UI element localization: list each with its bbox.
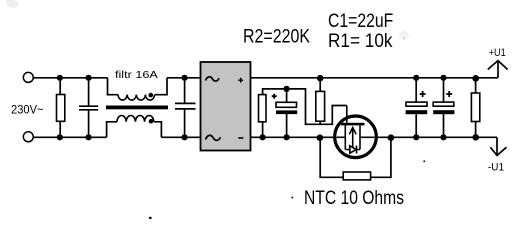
node dot C1 top [283, 86, 289, 92]
wire bottom rail right (after NTC circle) [377, 136, 497, 138]
svg-text:+U1: +U1 [489, 47, 506, 59]
resistor R1 [259, 95, 267, 122]
NTC inner right vertical [359, 125, 361, 149]
capacitor C1 plus sign [272, 94, 277, 99]
NTC bottom link [345, 149, 360, 151]
capacitor C3 top plate [433, 102, 454, 106]
bridge + [238, 78, 243, 83]
polarity dot L1 top [149, 93, 154, 98]
capacitor C2 positive lead [415, 78, 417, 102]
resistor R4 [475, 78, 477, 93]
wire bottom rail left [33, 136, 106, 138]
capacitor C3 bottom plate [433, 110, 454, 114]
svg-text:230V~: 230V~ [11, 102, 44, 116]
svg-text:R1= 10k: R1= 10k [328, 31, 393, 52]
capacitor C1 bottom plate [276, 110, 297, 114]
polarity dot L1 bottom [149, 119, 154, 124]
-U1 output arrow [496, 137, 498, 155]
bypass resistor R3 [343, 172, 370, 180]
wire bottom rail right (to NTC circle) [251, 136, 335, 138]
svg-text:R2=220K: R2=220K [243, 27, 310, 48]
NTC diode triangle [350, 146, 356, 153]
capacitor CX2 [184, 78, 186, 103]
capacitor CX1 [88, 78, 90, 106]
svg-text:filtr 16A: filtr 16A [115, 69, 158, 81]
node wire R1-C1-R2-NTC [263, 89, 347, 124]
wire top rail mid [167, 77, 201, 79]
bridge - [238, 137, 243, 139]
wire top rail left [33, 77, 107, 79]
stray smudge top-left [7, 0, 15, 5]
wire bottom rail mid [161, 136, 200, 138]
core bar of L1 [106, 106, 168, 110]
capacitor C2 bottom plate [406, 110, 428, 114]
NTC thermistor circle [335, 116, 377, 158]
terminal bottom-left [23, 132, 33, 142]
bridge ~ bottom [206, 135, 221, 140]
capacitor C3 bottom lead [443, 114, 445, 137]
junction dots bottom rail [57, 134, 63, 140]
capacitor C1 positive lead [286, 89, 288, 102]
capacitor C3 positive lead [443, 78, 445, 102]
NTC inner left vertical [344, 125, 346, 149]
bridge ~ top [206, 77, 220, 81]
faint smudge right of R1 label [399, 31, 409, 39]
NTC mid stub left [337, 136, 346, 138]
NTC top bar [341, 123, 365, 126]
capacitor C2 plus sign [420, 91, 426, 97]
svg-text:-U1: -U1 [488, 161, 504, 173]
bridge rectifier B1 [201, 62, 251, 151]
capacitor C1 top plate [276, 102, 297, 107]
bypass loop wire left [320, 139, 343, 177]
terminal top-left [23, 72, 33, 82]
svg-text:NTC 10 Ohms: NTC 10 Ohms [304, 188, 404, 209]
capacitor C1 bottom lead [286, 114, 288, 137]
wire top rail right [251, 77, 499, 79]
NTC mid stub right [360, 136, 374, 138]
svg-text:C1=22uF: C1=22uF [328, 11, 393, 32]
capacitor C2 top plate [406, 102, 427, 106]
capacitor C2 bottom lead [415, 114, 417, 137]
+U1 output arrow [497, 61, 499, 78]
inductor L1 bottom winding [107, 122, 117, 138]
stray speck right of caps [423, 160, 425, 162]
NTC arrow shaft [352, 129, 354, 147]
NTC gate entry [346, 106, 348, 123]
resistor RX1 vertical left [59, 78, 61, 95]
NTC arrow head [349, 128, 356, 135]
stray speck near NTC label [291, 197, 293, 199]
bypass loop wire right [371, 140, 391, 178]
NTC diode bar [356, 146, 358, 154]
capacitor C3 plus sign [446, 91, 452, 97]
inductor L1 top winding [108, 78, 119, 95]
stray speck bottom edge [149, 217, 152, 220]
junction dots top rail [57, 75, 63, 81]
resistor R2 [319, 78, 321, 92]
